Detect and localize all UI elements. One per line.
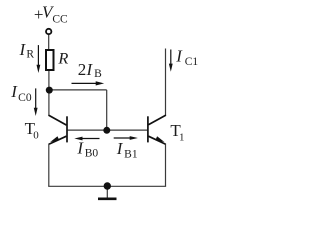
svg-text:R: R xyxy=(57,49,68,68)
